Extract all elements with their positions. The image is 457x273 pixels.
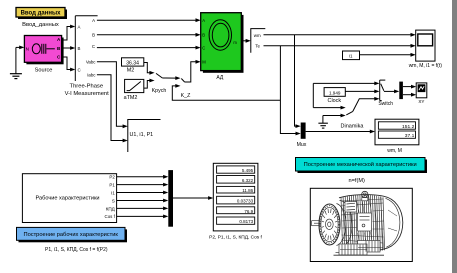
wire wm branch to mux (295, 35, 301, 128)
svg-text:5.495: 5.495 (242, 168, 254, 173)
annotation banner cyan (296, 158, 428, 174)
svg-text:C: C (78, 68, 81, 73)
wire Switch to demux (384, 90, 399, 94)
from tag i1 (343, 51, 360, 60)
manual switch K_Z (181, 79, 191, 99)
wire P2 to mux2 (117, 175, 169, 179)
svg-text:Построение рабочих характерист: Построение рабочих характеристик (23, 232, 118, 238)
wire AD m to bus selector (244, 39, 251, 43)
svg-text:Iabc: Iabc (87, 72, 96, 77)
manual switch Dinamika (341, 111, 365, 129)
wire Clock to Switch input 2 (345, 90, 379, 94)
svg-text:Mux: Mux (297, 142, 307, 148)
wire mux to display wm,M (306, 130, 375, 134)
svg-text:U1, i1, P1: U1, i1, P1 (130, 132, 154, 138)
subsystem Рабочие характеристики (22, 174, 116, 223)
svg-text:11.86: 11.86 (242, 188, 253, 193)
wire net to Switch input 1 (313, 82, 379, 108)
annotation banner "Ввод данных" (16, 8, 67, 20)
wire Source B to measurement B (64, 46, 76, 50)
svg-text:N: N (26, 47, 29, 52)
svg-text:Three-Phase: Three-Phase (70, 84, 104, 90)
svg-text:P1: P1 (109, 182, 115, 187)
svg-text:1.949: 1.949 (329, 90, 341, 95)
manual switch Kpych (152, 73, 167, 94)
wire M2 to Kpych (144, 63, 155, 75)
wire net to Dinamika input 1 (313, 106, 345, 110)
wire measurement A to AD (97, 18, 201, 22)
scrollbar strip (452, 0, 457, 273)
wire ground to Dinamika input 2 (323, 114, 346, 118)
svg-text:B: B (92, 33, 95, 38)
wire KPD to mux2 (117, 207, 169, 211)
annotation banner blue (17, 227, 128, 242)
source block (Source, magenta) (24, 36, 63, 65)
svg-text:V-I Measurement: V-I Measurement (65, 91, 110, 97)
svg-text:Рабочие характеристики: Рабочие характеристики (35, 195, 99, 201)
mux2 (168, 170, 173, 227)
svg-text:S: S (112, 198, 115, 203)
svg-text:76.9: 76.9 (244, 209, 253, 214)
svg-text:37.1: 37.1 (405, 133, 415, 139)
svg-text:P2: P2 (109, 175, 115, 180)
wire P1 to mux2 (117, 183, 169, 187)
svg-text:M2: M2 (127, 67, 135, 73)
svg-text:36.34: 36.34 (126, 61, 139, 67)
motor picture frame (310, 188, 412, 261)
svg-text:A: A (92, 18, 95, 23)
display wm,M (375, 119, 419, 145)
svg-text:0.8173: 0.8173 (239, 219, 253, 224)
wire Vabc to subsystem U1 (97, 62, 128, 129)
ground G2 (318, 116, 328, 129)
svg-text:m: m (233, 40, 237, 45)
wire Source A to measurement A (64, 25, 76, 40)
display M2 (36.34) (122, 58, 144, 74)
svg-text:aTM2: aTM2 (124, 95, 138, 101)
wire aTM2 to Kpych (144, 79, 155, 89)
digital clock Clock (324, 88, 345, 104)
AD motor block (201, 13, 244, 73)
svg-text:151.2: 151.2 (402, 124, 415, 130)
scope wm,M,i1 (416, 30, 435, 61)
subsystem U1, i1, P1 (128, 120, 161, 153)
XY graph block (416, 83, 427, 104)
bus selector bracket (251, 29, 265, 53)
switch Switch (378, 80, 393, 107)
svg-text:P1, i1, S, КПД, Cos f = f(P2): P1, i1, S, КПД, Cos f = f(P2) (45, 247, 108, 253)
ground G1 (10, 47, 22, 78)
svg-text:Vabc: Vabc (86, 59, 96, 64)
svg-text:wm, M, i1 = f(t): wm, M, i1 = f(t) (409, 63, 443, 69)
display P2..Cos f (213, 163, 258, 231)
svg-text:Ввод_данных: Ввод_данных (22, 22, 59, 28)
svg-text:Switch: Switch (378, 101, 393, 107)
svg-text:n=f(M): n=f(M) (349, 178, 365, 184)
svg-text:M: M (202, 60, 206, 65)
svg-text:0.03733: 0.03733 (237, 199, 254, 204)
svg-text:i1: i1 (349, 53, 353, 58)
wire Kpych to K_Z (162, 76, 180, 80)
wire wm to scope (264, 33, 416, 37)
wire ground to Source N (16, 46, 25, 50)
wire Iabc to subsystem U1 (97, 75, 128, 143)
demux (399, 82, 403, 100)
svg-text:C: C (202, 45, 205, 50)
mux Mux (297, 123, 307, 149)
svg-text:Ввод данных: Ввод данных (21, 11, 62, 17)
motor picture (312, 191, 403, 255)
wire Te to scope (264, 44, 416, 48)
svg-text:6.322: 6.322 (242, 178, 254, 183)
svg-text:XY: XY (418, 99, 424, 104)
svg-text:Dinamika: Dinamika (341, 123, 365, 129)
svg-text:B: B (202, 33, 205, 38)
wire measurement B to AD (97, 33, 201, 37)
wire S to mux2 (117, 199, 169, 203)
svg-text:Kpych: Kpych (152, 88, 167, 94)
wire Cos f to mux2 (117, 215, 169, 219)
svg-text:Te: Te (255, 43, 260, 48)
svg-text:Clock: Clock (328, 98, 342, 104)
ramp block aTM2 (124, 79, 144, 100)
wire I1 to mux2 (117, 191, 169, 195)
wire measurement C to AD (97, 46, 201, 50)
label Three-Phase V-I Measurement (65, 84, 110, 98)
three-phase V-I measurement block (75, 16, 97, 81)
svg-text:wm, M: wm, M (387, 148, 402, 154)
svg-text:АД: АД (216, 75, 224, 81)
wire Source C to measurement C (64, 57, 76, 71)
wire mux2 to display (173, 196, 213, 200)
svg-text:C: C (92, 44, 95, 49)
svg-text:K_Z: K_Z (181, 93, 191, 99)
svg-text:I1: I1 (111, 190, 115, 195)
svg-text:wm: wm (254, 33, 261, 38)
svg-text:B: B (78, 46, 81, 51)
wire Te tap to K_Z (172, 84, 280, 100)
svg-text:A: A (78, 25, 81, 30)
svg-text:Построение механической характ: Построение механической характеристики (304, 161, 417, 168)
svg-text:P2, P1, i1, S, КПД, Cos f: P2, P1, i1, S, КПД, Cos f (209, 235, 262, 241)
svg-text:КПД: КПД (106, 206, 116, 211)
wire K_Z pole to AD M input (185, 60, 201, 82)
svg-text:Cos f: Cos f (105, 214, 116, 219)
wire Te branch to mux (280, 46, 300, 136)
wire i1 to scope (360, 53, 416, 57)
wire demux out1 to XY (403, 85, 416, 89)
svg-text:A: A (202, 18, 205, 23)
wire demux out2 to XY (403, 93, 416, 97)
svg-text:Source: Source (35, 67, 53, 73)
wire Dinamika to Switch input 3 (353, 97, 380, 112)
